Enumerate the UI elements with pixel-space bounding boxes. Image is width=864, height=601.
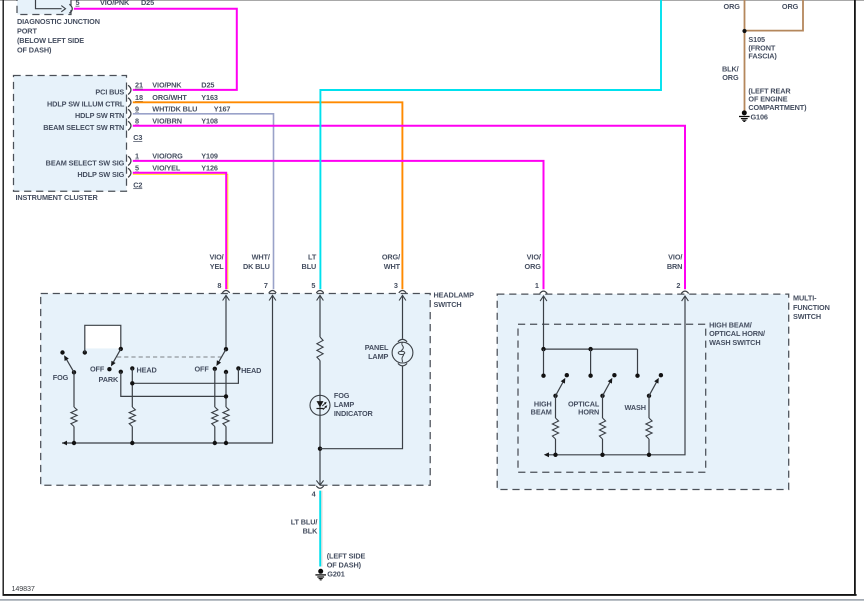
svg-text:WHT/: WHT/ — [252, 253, 270, 262]
svg-text:LT: LT — [308, 253, 317, 262]
svg-text:BRN: BRN — [667, 262, 682, 271]
headlamp switch box — [41, 294, 431, 486]
middle switch pivot dot — [119, 347, 123, 351]
multi-function switch pin 2 connector arc and arrow — [681, 291, 688, 293]
wire from indicator to pin 4 — [319, 415, 321, 485]
svg-text:VIO/ORG: VIO/ORG — [152, 152, 183, 161]
svg-text:3: 3 — [394, 281, 398, 290]
park contacts wire — [121, 372, 226, 397]
pin 1 feed wire — [543, 296, 545, 349]
wire VIO/YEL Y126 from pin 5 to headlamp switch pin 8 — [133, 173, 226, 289]
svg-text:9: 9 — [135, 105, 139, 114]
pin 9 connector arc — [128, 109, 131, 118]
page top border line — [0, 0, 864, 2]
svg-text:WASH SWITCH: WASH SWITCH — [709, 338, 760, 347]
head contacts joining wire — [132, 368, 238, 383]
wire VIO/ORG Y109 from pin 1 to multi-function switch pin 1 — [133, 161, 544, 289]
switch lever 1 with arrow — [553, 394, 557, 398]
svg-text:BLU: BLU — [302, 262, 317, 271]
fog switch resistor — [73, 372, 75, 407]
return bus junction dots — [553, 453, 557, 457]
pin 1 connector arc — [128, 156, 131, 165]
return bus left arrow — [544, 452, 549, 457]
svg-text:HEADLAMP: HEADLAMP — [434, 291, 475, 300]
svg-text:WHT: WHT — [384, 262, 401, 271]
svg-text:SWITCH: SWITCH — [793, 312, 821, 321]
junction dot on head branch — [130, 381, 134, 385]
head contact resistor branch — [131, 368, 133, 407]
svg-text:SWITCH: SWITCH — [434, 300, 462, 309]
right switch lever with arrow — [219, 349, 226, 362]
right OFF contact resistor branch — [214, 369, 216, 407]
arrow into diagnostic port pin 5 — [61, 6, 65, 12]
feed drop wires — [543, 349, 545, 376]
svg-text:ORG: ORG — [724, 2, 741, 11]
panel lamp filament — [401, 342, 404, 351]
svg-text:Y109: Y109 — [201, 152, 218, 161]
svg-text:ORG/WHT: ORG/WHT — [152, 93, 187, 102]
page bottom border line — [3, 594, 857, 596]
fog switch contact dot right — [83, 350, 87, 354]
svg-text:HEAD: HEAD — [241, 366, 261, 375]
svg-text:HDLP SW SIG: HDLP SW SIG — [77, 170, 124, 179]
fog switch pivot dot — [72, 370, 76, 374]
wire LT BLU to headlamp switch pin 5 — [320, 0, 661, 289]
middle switch lever with arrow — [113, 349, 120, 362]
high beam / optical horn / wash switch inner box — [518, 324, 706, 472]
svg-text:8: 8 — [135, 117, 139, 126]
junction dot park wire — [224, 394, 228, 398]
pin 5 wire and dimmer resistor — [319, 295, 321, 337]
svg-text:Y126: Y126 — [201, 164, 218, 173]
panel lamp bulb circle — [392, 342, 413, 363]
svg-text:DK BLU: DK BLU — [243, 262, 270, 271]
svg-text:VIO/: VIO/ — [527, 253, 541, 262]
ground G106 — [742, 110, 747, 115]
svg-text:2: 2 — [676, 281, 680, 290]
right switch middle contact dot — [224, 370, 228, 374]
svg-text:Y167: Y167 — [214, 105, 231, 114]
wire from fog right contact up-over to middle switch pivot — [85, 325, 121, 352]
svg-text:VIO/PNK: VIO/PNK — [152, 81, 182, 90]
svg-text:D25: D25 — [141, 0, 154, 7]
svg-text:VIO/PNK: VIO/PNK — [100, 0, 130, 7]
bus junction dots — [72, 441, 76, 445]
svg-text:COMPARTMENT): COMPARTMENT) — [748, 103, 807, 112]
svg-text:OF DASH): OF DASH) — [327, 561, 362, 570]
svg-text:LAMP: LAMP — [368, 352, 388, 361]
svg-text:VIO/YEL: VIO/YEL — [152, 164, 181, 173]
floating contact dots — [565, 373, 569, 377]
svg-text:ORG: ORG — [525, 262, 542, 271]
headlamp switch pin 3 connector arc and arrow — [399, 291, 406, 293]
svg-text:OFF: OFF — [194, 365, 209, 374]
wire VIO/BRN Y108 from pin 8 to multi-function switch pin 2 — [133, 126, 685, 289]
svg-text:PANEL: PANEL — [365, 343, 389, 352]
wire ORG left branch to splice S105 — [744, 0, 746, 111]
svg-text:INDICATOR: INDICATOR — [334, 409, 374, 418]
wire LT BLU/BLK from pin 4 to ground — [319, 491, 321, 567]
svg-text:LT BLU/: LT BLU/ — [291, 518, 318, 527]
mechanical linkage dashed line — [117, 356, 221, 358]
switch branch resistor 1 — [555, 396, 557, 418]
right switch pivot dot — [224, 347, 228, 351]
svg-text:VIO/: VIO/ — [209, 253, 223, 262]
diagnostic port pin 5 connector arc — [69, 4, 72, 13]
svg-text:PORT: PORT — [17, 27, 37, 36]
svg-text:5: 5 — [311, 281, 315, 290]
headlamp switch pin 5 connector arc and arrow — [316, 291, 323, 293]
wire inside diagnostic junction port — [36, 0, 62, 9]
svg-text:HEAD: HEAD — [137, 366, 157, 375]
page left border line — [2, 0, 4, 596]
wire VIO/PNK D25 from diagnostic port to cluster pin 21 — [74, 9, 237, 90]
wire from panel lamp to junction — [320, 366, 403, 449]
switch branch resistor 3 — [648, 396, 650, 418]
right middle contact resistor branch — [225, 372, 227, 407]
svg-text:Y163: Y163 — [201, 93, 218, 102]
wire ORG/WHT Y163 from pin 18 to headlamp switch pin 3 — [133, 102, 403, 289]
svg-text:ORG: ORG — [722, 73, 739, 82]
svg-text:VIO/BRN: VIO/BRN — [152, 117, 182, 126]
panel lamp socket arc bottom — [398, 363, 407, 366]
switch lever 2 with arrow — [600, 394, 604, 398]
svg-text:MULTI-: MULTI- — [793, 294, 817, 303]
svg-text:BEAM: BEAM — [531, 407, 552, 416]
svg-text:(BELOW LEFT SIDE: (BELOW LEFT SIDE — [17, 36, 84, 45]
svg-text:WHT/DK BLU: WHT/DK BLU — [152, 105, 197, 114]
pin 18 connector arc — [128, 98, 131, 107]
svg-text:PARK: PARK — [99, 375, 120, 384]
svg-text:HIGH BEAM/: HIGH BEAM/ — [709, 320, 752, 329]
svg-text:VIO/: VIO/ — [668, 253, 682, 262]
svg-text:YEL: YEL — [210, 262, 224, 271]
svg-text:5: 5 — [135, 164, 139, 173]
switch branch resistor 2 — [602, 396, 604, 418]
fog lamp indicator LED circle — [310, 395, 330, 415]
svg-text:(LEFT SIDE: (LEFT SIDE — [327, 552, 366, 561]
wire LT BLU/BLK from pin 4 to ground - gray tracer — [321, 491, 323, 567]
fixed contact dots fed — [541, 374, 545, 378]
svg-text:LAMP: LAMP — [334, 400, 354, 409]
svg-text:Y108: Y108 — [201, 117, 218, 126]
splice S105 — [742, 29, 746, 33]
svg-text:HDLP SW RTN: HDLP SW RTN — [75, 111, 124, 120]
svg-text:FOG: FOG — [53, 373, 69, 382]
multi-function switch pin 1 connector arc and arrow — [540, 291, 547, 293]
svg-text:G106: G106 — [751, 112, 768, 121]
svg-text:WASH: WASH — [624, 403, 645, 412]
window bottom gray line — [0, 599, 864, 601]
headlamp switch pin 8 connector arc and arrow — [222, 291, 229, 293]
pin 8 feed wire to right switch pivot — [225, 295, 227, 349]
wire WHT/DK BLU Y167 from pin 9 to headlamp switch pin 7 — [133, 114, 274, 289]
svg-text:INSTRUMENT CLUSTER: INSTRUMENT CLUSTER — [16, 193, 99, 202]
svg-text:8: 8 — [217, 281, 221, 290]
feed bus junction dots — [541, 347, 545, 351]
svg-text:HORN: HORN — [578, 407, 599, 416]
pin 8 connector arc — [128, 121, 131, 130]
svg-text:149837: 149837 — [12, 584, 35, 593]
svg-text:ORG/: ORG/ — [382, 253, 400, 262]
svg-text:FUNCTION: FUNCTION — [793, 303, 830, 312]
fog lamp indicator LED symbol — [319, 395, 321, 415]
svg-text:PCI BUS: PCI BUS — [95, 87, 124, 96]
headlamp switch pin 4 exit arrow and arc — [316, 480, 323, 485]
svg-text:OF DASH): OF DASH) — [17, 46, 52, 55]
svg-text:18: 18 — [135, 93, 143, 102]
return bus left arrow — [62, 441, 67, 446]
multi-function switch return bus — [546, 296, 685, 455]
switch lever 3 with arrow — [647, 394, 651, 398]
headlamp switch pin 7 connector arc and arrow — [269, 291, 276, 293]
svg-text:BEAM SELECT SW SIG: BEAM SELECT SW SIG — [46, 158, 125, 167]
svg-text:OFF: OFF — [90, 365, 105, 374]
svg-text:G201: G201 — [327, 570, 344, 579]
svg-text:BLK: BLK — [303, 527, 318, 536]
feed bus — [544, 348, 638, 350]
svg-text:7: 7 — [264, 281, 268, 290]
middle switch HEAD contact dot — [130, 366, 134, 370]
svg-text:C3: C3 — [133, 133, 142, 142]
svg-text:BEAM SELECT SW RTN: BEAM SELECT SW RTN — [43, 123, 124, 132]
headlamp switch return bus — [62, 295, 273, 443]
middle switch PARK contact dot — [119, 370, 123, 374]
svg-text:OPTICAL HORN/: OPTICAL HORN/ — [709, 329, 765, 338]
wire ORG right branch — [745, 0, 804, 31]
svg-text:DIAGNOSTIC JUNCTION: DIAGNOSTIC JUNCTION — [17, 17, 100, 26]
diagnostic junction port box — [17, 0, 71, 15]
svg-text:C2: C2 — [133, 180, 142, 189]
pin 3 wire to panel lamp — [402, 295, 404, 338]
pin 5 connector arc — [128, 168, 131, 177]
fog switch lever with arrow — [67, 360, 74, 373]
fog switch contact dot left — [60, 350, 64, 354]
right switch HEAD contact dot — [236, 366, 240, 370]
svg-text:1: 1 — [535, 281, 539, 290]
wire VIO/YEL Y126 from pin 5 to headlamp switch pin 8 - yellow tracer — [133, 174, 228, 289]
right switch OFF contact dot — [213, 367, 217, 371]
svg-text:5: 5 — [76, 0, 80, 7]
svg-text:1: 1 — [135, 152, 139, 161]
pin 21 connector arc — [128, 85, 131, 94]
white patch behind switch feed loop — [85, 326, 120, 349]
page right border line — [854, 0, 856, 596]
panel lamp socket arc top — [398, 339, 407, 342]
svg-text:FASCIA): FASCIA) — [748, 51, 777, 60]
svg-text:D25: D25 — [201, 81, 214, 90]
svg-text:ORG: ORG — [782, 2, 799, 11]
svg-text:21: 21 — [135, 81, 143, 90]
multi-function switch box — [497, 294, 789, 489]
middle switch OFF contact dot — [107, 367, 111, 371]
svg-text:HDLP SW ILLUM CTRL: HDLP SW ILLUM CTRL — [47, 100, 125, 109]
instrument cluster box — [14, 76, 127, 192]
junction dot indicator/panel lamp — [318, 447, 322, 451]
svg-text:FOG: FOG — [334, 391, 350, 400]
ground G201 — [318, 569, 323, 574]
